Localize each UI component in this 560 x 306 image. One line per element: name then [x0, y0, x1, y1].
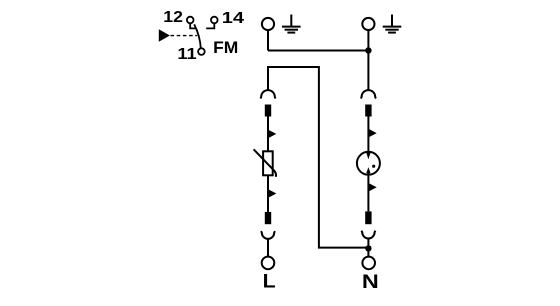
changeover switch lever — [194, 24, 201, 48]
thermal disconnect bar left upper — [265, 105, 271, 117]
svg-text:12: 12 — [163, 9, 183, 26]
svg-text:FM: FM — [213, 38, 238, 57]
disconnect arrow left upper — [267, 129, 276, 138]
disconnect arrow left lower — [267, 189, 276, 198]
wire: right branch lower — [367, 175, 369, 211]
svg-text:11: 11 — [177, 46, 196, 63]
remote-signal indicator arrow — [159, 29, 170, 41]
wire: right branch upper — [367, 117, 369, 152]
terminal circle PE right — [362, 18, 374, 30]
contact 12 fixed lead — [190, 23, 196, 28]
svg-text:L: L — [263, 270, 276, 292]
terminal circle N — [362, 257, 375, 270]
gas discharge tube circle — [357, 152, 380, 175]
wire: plug pin stem L — [267, 239, 269, 257]
plug socket arc right — [361, 90, 376, 98]
svg-text:N: N — [362, 271, 379, 293]
varistor body — [263, 151, 273, 175]
wire: left branch upper — [267, 117, 269, 152]
thermal disconnect bar right upper — [365, 105, 371, 117]
ground symbol left — [282, 15, 301, 33]
plug socket arc left — [261, 90, 276, 98]
junction PE bus — [365, 47, 371, 53]
wire: left branch lower — [267, 175, 269, 212]
disconnect arrow right upper — [368, 128, 377, 137]
GDT bottom electrode — [367, 173, 369, 176]
junction N node — [365, 245, 371, 251]
terminal circle L — [262, 257, 275, 270]
contact terminal 11 circle — [198, 48, 205, 55]
wire: plug pin stem N — [367, 238, 369, 256]
plug pin arc left — [261, 231, 275, 239]
wire: PE bus horizontal — [268, 50, 368, 52]
disconnect arrow right lower — [368, 183, 377, 192]
thermal disconnect bar right lower — [365, 211, 371, 224]
plug pin arc right — [361, 231, 375, 239]
terminal circle PE left — [262, 18, 274, 30]
varistor diagonal stroke — [254, 149, 276, 177]
contact terminal 12 circle — [187, 17, 194, 24]
GDT gas dot — [372, 165, 375, 168]
wire: left PE terminal down — [267, 30, 269, 51]
dashed actuator line — [171, 35, 198, 37]
ground symbol right — [383, 15, 402, 33]
thermal disconnect bar left lower — [265, 212, 271, 224]
GDT top electrode — [367, 151, 369, 153]
wire: right PE terminal down to right branch — [367, 30, 369, 90]
contact 14 fixed lead — [206, 23, 214, 28]
contact terminal 14 circle — [211, 17, 218, 24]
svg-text:14: 14 — [222, 10, 244, 27]
wire: varistor top bypass to N node — [268, 67, 366, 248]
